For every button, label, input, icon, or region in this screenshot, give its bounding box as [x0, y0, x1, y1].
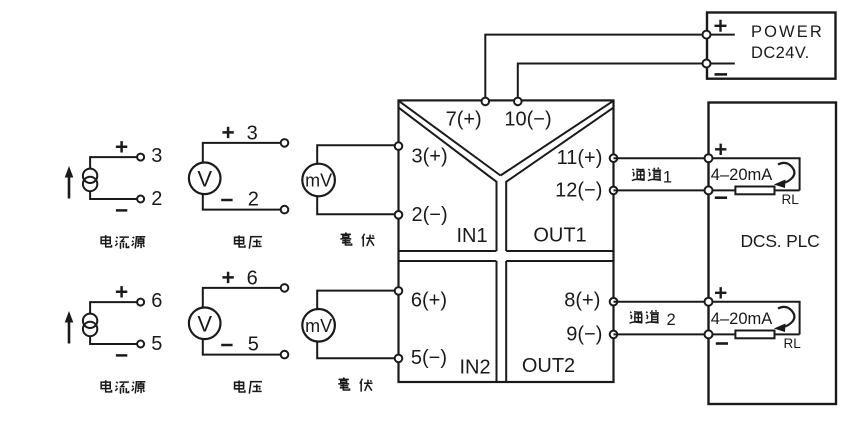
- svg-text:DC24V.: DC24V.: [751, 44, 810, 62]
- svg-text:5(−): 5(−): [411, 347, 447, 369]
- DCS PLC BOX: [709, 103, 837, 405]
- svg-text:OUT1: OUT1: [533, 225, 586, 247]
- terminal 3: [395, 142, 403, 150]
- svg-text:4–20mA: 4–20mA: [711, 310, 772, 328]
- label dian liu yuan (current source) row2: [101, 380, 145, 393]
- label hao fu (millivolt) row2: [338, 378, 372, 392]
- svg-text:3: 3: [247, 122, 258, 144]
- open terminal circle V2 top: [281, 284, 289, 292]
- svg-text:2: 2: [151, 188, 162, 210]
- voltmeter V1 circle: [189, 163, 221, 195]
- plus sign CS2: [116, 286, 127, 297]
- svg-text:2: 2: [248, 189, 259, 211]
- channel1 terminal on DCS -: [705, 186, 713, 194]
- power supply box outline: [707, 13, 836, 79]
- POWER SUPPLY BOX: [703, 13, 836, 79]
- svg-text:9(−): 9(−): [566, 324, 602, 346]
- svg-text:RL: RL: [784, 336, 802, 351]
- isolation barrier Y right inner diagonal: [506, 108, 613, 251]
- CURRENT SOURCE CIRCUIT 2: [65, 286, 163, 393]
- terminal 12: [610, 187, 618, 195]
- open terminal circle V2 bottom: [281, 351, 289, 359]
- wire V1 top to terminal: [203, 143, 281, 163]
- wire channel2 bottom (pin9 to resistor): [614, 333, 736, 335]
- label channel2 (tong dao 2): [630, 310, 676, 329]
- resistor RL channel2: [735, 331, 774, 339]
- CHANNEL 2 OUTPUT LOOP: [614, 287, 802, 351]
- voltmeter V2 circle: [189, 308, 221, 340]
- wire from pin 7 to power +: [485, 35, 702, 99]
- svg-text:mV: mV: [305, 171, 332, 191]
- CURRENT SOURCE CIRCUIT 1: [65, 141, 163, 248]
- current source CS1 symbol (two overlapping circles): [83, 169, 97, 183]
- isolation barrier Y right diagonal: [501, 101, 613, 175]
- current direction arrow channel1: [778, 163, 794, 184]
- VOLTAGE SOURCE CIRCUIT 1: [189, 122, 288, 248]
- terminals on main block: [395, 98, 618, 363]
- channel2 terminal on DCS +: [705, 298, 713, 306]
- block quadrant labels: [456, 225, 586, 379]
- isolation barrier Y left diagonal: [400, 101, 501, 175]
- svg-text:5: 5: [248, 334, 259, 356]
- svg-text:IN2: IN2: [459, 357, 490, 379]
- wire channel1 bottom (pin12 to resistor): [614, 189, 736, 191]
- terminal 5: [395, 355, 403, 363]
- MILLIVOLT SOURCE CIRCUIT 2: [302, 291, 394, 392]
- svg-text:2(−): 2(−): [412, 204, 448, 226]
- svg-text:6: 6: [151, 290, 162, 312]
- wire channel2 top (pin8 to loop corner): [614, 302, 800, 335]
- wire CS1 bottom to terminal 2': [90, 191, 137, 199]
- isolation barrier Y left inner diagonal: [399, 108, 497, 251]
- terminal 11: [610, 154, 618, 162]
- svg-text:3(+): 3(+): [412, 145, 448, 167]
- terminal 9: [610, 331, 618, 339]
- MAIN ISOLATOR BLOCK: [399, 100, 614, 382]
- svg-text:IN1: IN1: [456, 225, 487, 247]
- terminal 7: [482, 98, 490, 106]
- power plus sign: [715, 20, 727, 32]
- millivolt source mV1 circle: [302, 164, 335, 197]
- middle divider upper line: [399, 250, 614, 252]
- plus sign channel1: [715, 144, 726, 155]
- svg-text:10(−): 10(−): [504, 109, 551, 131]
- minus sign V2: [221, 344, 232, 347]
- power + terminal circle: [703, 31, 711, 39]
- middle divider lower line: [399, 260, 614, 262]
- DCS PLC box outline: [709, 103, 837, 405]
- svg-text:12(−): 12(−): [555, 179, 602, 201]
- open terminal circle V1 bottom: [281, 206, 289, 214]
- svg-text:7(+): 7(+): [446, 109, 482, 131]
- direction arrow CS2: [68, 320, 71, 344]
- millivolt source mV2 circle: [302, 309, 335, 342]
- resistor RL channel1: [735, 187, 774, 195]
- open terminal circle 6': [137, 299, 144, 306]
- minus sign V1: [221, 199, 232, 202]
- direction arrow CS1: [68, 175, 71, 199]
- wire channel1 top (pin11 to loop corner): [614, 158, 800, 190]
- wire V1 bottom to terminal: [203, 194, 281, 210]
- power - terminal circle: [703, 60, 711, 68]
- wire CS1 top to terminal 3': [90, 157, 137, 169]
- svg-text:11(+): 11(+): [557, 147, 603, 169]
- label dian liu yuan (current source) row1: [101, 235, 145, 248]
- svg-text:6: 6: [247, 267, 258, 289]
- wire resistor RL2 to loop corner: [775, 333, 800, 335]
- open terminal circle 5': [137, 341, 144, 348]
- wire from pin 10 to power -: [518, 64, 703, 100]
- channel1 terminal on DCS +: [705, 154, 713, 162]
- MILLIVOLT SOURCE CIRCUIT 1: [302, 145, 394, 246]
- wire V2 top to terminal: [203, 288, 281, 308]
- svg-text:V: V: [197, 311, 212, 336]
- wire resistor RL to loop corner: [775, 189, 800, 191]
- svg-text:POWER: POWER: [751, 23, 824, 41]
- open terminal circle V1 top: [281, 139, 289, 147]
- VOLTAGE SOURCE CIRCUIT 2: [189, 267, 288, 393]
- block pin number labels: [411, 109, 603, 370]
- wire CS2 top to terminal 6': [90, 302, 137, 314]
- svg-text:DCS. PLC: DCS. PLC: [740, 231, 819, 251]
- svg-text:V: V: [197, 166, 212, 191]
- wire mV1 bottom to block terminal 2: [317, 196, 395, 214]
- svg-text:8(+): 8(+): [564, 290, 600, 312]
- svg-text:3: 3: [151, 145, 162, 167]
- minus sign CS2: [116, 354, 127, 357]
- wire mV2 top to block terminal 6: [317, 291, 395, 310]
- svg-text:5: 5: [151, 333, 162, 355]
- svg-text:6(+): 6(+): [411, 289, 447, 311]
- svg-text:OUT2: OUT2: [522, 355, 575, 377]
- current source CS2 symbol (two overlapping circles): [83, 314, 97, 328]
- svg-text:1: 1: [663, 168, 672, 186]
- wire mV1 top to block terminal 3: [317, 145, 395, 164]
- label dian ya (voltage) row2: [235, 380, 262, 393]
- label channel1 (tong dao 1): [632, 168, 672, 187]
- terminal 10: [514, 98, 522, 106]
- open terminal circle 3': [137, 154, 144, 161]
- minus sign channel1: [715, 196, 727, 199]
- plus sign CS1: [116, 141, 127, 152]
- terminal 6: [395, 287, 403, 295]
- wire V2 bottom to terminal: [203, 339, 281, 355]
- label hao fu (millivolt) row1: [340, 233, 374, 247]
- plus sign V2: [222, 272, 233, 283]
- wire mV2 bottom to block terminal 5: [317, 341, 395, 358]
- isolator outer box: [399, 100, 614, 382]
- plus sign channel2: [715, 287, 726, 298]
- svg-text:4–20mA: 4–20mA: [711, 166, 772, 184]
- lower channel divider verticals: [497, 261, 507, 382]
- power + terminal stub wire: [707, 34, 735, 36]
- open terminal circle 2': [137, 196, 144, 203]
- svg-text:2: 2: [667, 311, 676, 329]
- minus sign CS1: [116, 209, 127, 212]
- label dian ya (voltage) row1: [235, 235, 262, 248]
- plus sign V1: [222, 127, 233, 138]
- terminal 2: [395, 211, 403, 219]
- wire CS2 bottom to terminal 5': [90, 336, 137, 344]
- power - terminal stub wire: [707, 63, 735, 65]
- current direction arrow channel2: [778, 307, 794, 328]
- power minus sign: [715, 73, 728, 76]
- CHANNEL 1 OUTPUT LOOP: [614, 144, 800, 207]
- terminal 8: [610, 298, 618, 306]
- channel2 terminal on DCS -: [705, 330, 713, 338]
- svg-text:RL: RL: [782, 192, 800, 207]
- svg-text:mV: mV: [305, 316, 332, 336]
- minus sign channel2: [716, 342, 728, 345]
